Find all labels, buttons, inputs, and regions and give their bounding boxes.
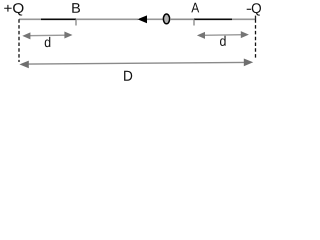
- label B: [72, 3, 80, 13]
- wire gray segment arrowhead to charge: [147, 18, 163, 20]
- left d dimension arrow: [22, 32, 72, 40]
- D dimension arrow (full span): [19, 59, 253, 69]
- label A: [191, 3, 199, 13]
- wire gray segment B to arrowhead: [76, 18, 138, 20]
- tick mark at A: [193, 20, 195, 26]
- dashed line below -Q: [255, 19, 257, 58]
- label D: [124, 71, 132, 81]
- wire black segment A to right: [194, 18, 232, 20]
- wire gray segment +Q to left of B: [19, 18, 41, 20]
- tick mark at B: [75, 20, 77, 26]
- label +Q: [4, 3, 23, 15]
- dashed line below +Q: [18, 19, 20, 62]
- arrowhead pointing left (velocity of charge): [137, 15, 147, 23]
- charge bead (gray ellipse): [163, 14, 169, 24]
- label d (left): [45, 37, 51, 47]
- wire medium segment charge to A: [170, 18, 194, 20]
- wire black segment to B: [41, 18, 76, 20]
- label -Q: [247, 3, 261, 15]
- tick above line at -Q end: [255, 16, 257, 20]
- right d dimension arrow: [197, 31, 249, 39]
- label d (right): [220, 36, 226, 46]
- wire gray segment to -Q: [232, 18, 256, 20]
